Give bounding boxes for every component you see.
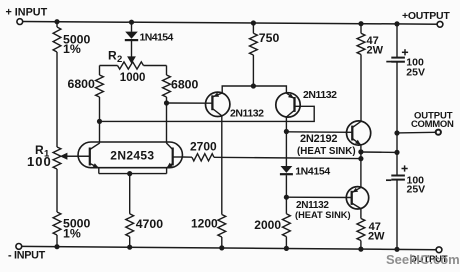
svg-text:4700: 4700: [136, 217, 164, 231]
svg-text:6800: 6800: [68, 77, 96, 91]
svg-text:25V: 25V: [407, 183, 426, 195]
svg-text:100: 100: [27, 154, 52, 169]
svg-text:1N4154: 1N4154: [295, 165, 330, 177]
svg-text:6800: 6800: [171, 78, 199, 92]
svg-text:+ INPUT: + INPUT: [6, 6, 48, 18]
svg-text:COMMON: COMMON: [411, 119, 454, 130]
svg-text:1N4154: 1N4154: [140, 31, 174, 43]
svg-text:1%: 1%: [63, 42, 81, 56]
svg-text:2W: 2W: [368, 231, 385, 243]
svg-text:2N2453: 2N2453: [110, 148, 154, 162]
svg-text:1%: 1%: [63, 226, 81, 240]
svg-text:+OUTPUT: +OUTPUT: [402, 10, 450, 22]
svg-text:2N2192: 2N2192: [300, 133, 337, 145]
svg-text:- INPUT: - INPUT: [8, 250, 46, 262]
svg-text:2W: 2W: [367, 44, 384, 56]
svg-text:2700: 2700: [190, 139, 217, 153]
svg-text:1200: 1200: [191, 217, 218, 231]
svg-text:1000: 1000: [120, 72, 146, 84]
svg-text:25V: 25V: [406, 67, 425, 79]
svg-text:R: R: [108, 49, 117, 63]
svg-text:(HEAT SINK): (HEAT SINK): [295, 210, 351, 220]
svg-text:(HEAT SINK): (HEAT SINK): [297, 146, 356, 157]
svg-text:2N1132: 2N1132: [303, 89, 337, 101]
svg-text:2N1132: 2N1132: [230, 107, 264, 119]
svg-text:SeekIC.com: SeekIC.com: [386, 252, 460, 267]
svg-text:2000: 2000: [254, 218, 281, 232]
svg-text:750: 750: [259, 31, 280, 45]
svg-text:2: 2: [117, 54, 122, 65]
